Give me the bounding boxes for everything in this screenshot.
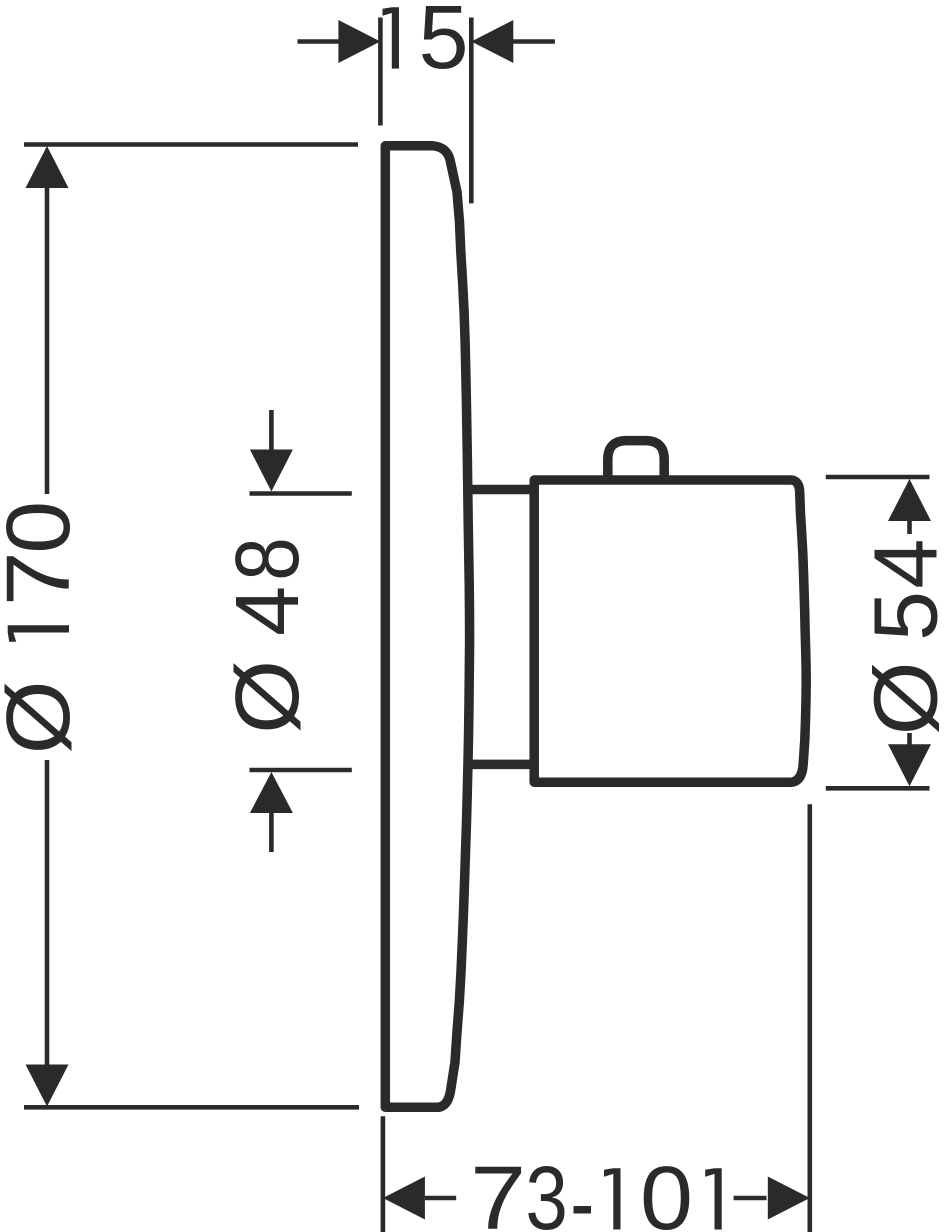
svg-text:4: 4 — [218, 586, 318, 636]
svg-text:5: 5 — [418, 0, 468, 88]
svg-text:7: 7 — [0, 551, 89, 606]
svg-text:5: 5 — [857, 591, 944, 641]
svg-text:Ø: Ø — [0, 680, 89, 754]
svg-text:Ø: Ø — [218, 660, 318, 734]
svg-text:0: 0 — [0, 501, 89, 554]
svg-text:8: 8 — [218, 537, 318, 581]
svg-text:Ø: Ø — [857, 661, 944, 735]
svg-text:3: 3 — [525, 1149, 568, 1232]
svg-text:4: 4 — [857, 539, 944, 589]
svg-text:0: 0 — [640, 1149, 693, 1232]
svg-text:7: 7 — [470, 1149, 526, 1232]
